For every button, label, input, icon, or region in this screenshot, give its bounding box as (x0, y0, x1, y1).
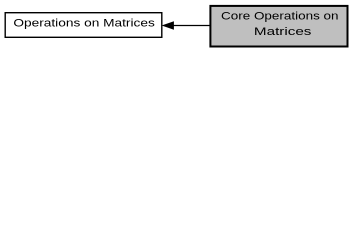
svg-text:Operations on Matrices: Operations on Matrices (13, 18, 155, 30)
svg-text:Matrices: Matrices (254, 26, 312, 38)
svg-text:Core Operations on: Core Operations on (221, 11, 339, 23)
